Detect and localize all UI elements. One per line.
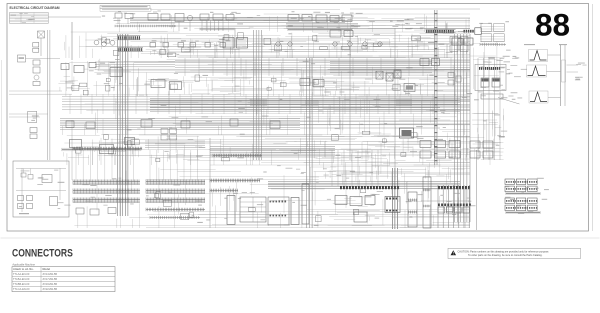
bus B drop ticks: [69, 94, 71, 114]
bus B reinforcing lines: [150, 100, 458, 102]
small parts below ladders: [76, 208, 84, 214]
pump unit boxes: [335, 196, 347, 205]
svg-text:Applicable Machine: Applicable Machine: [12, 263, 35, 267]
left double feeder: [47, 30, 49, 160]
bus E ticks: [213, 155, 262, 157]
fuse row center: [276, 42, 280, 46]
bottom bus F dark pins left: [340, 186, 342, 189]
vertical harness bundle B1: [117, 34, 119, 216]
harness mid bundle D: [145, 140, 205, 142]
valve block ladder: [385, 197, 400, 213]
left relay K1: [38, 31, 45, 38]
scattered small components mid: [83, 90, 88, 95]
drawing frame border: [7, 4, 589, 232]
right cluster 2: [470, 141, 480, 148]
svg-text:CONNECTORS: CONNECTORS: [12, 247, 73, 259]
right distribution area: [477, 58, 479, 160]
inset upper-left group: [21, 173, 26, 177]
svg-text:ELECTRICAL CIRCUIT DIAGRAM: ELECTRICAL CIRCUIT DIAGRAM: [10, 6, 60, 10]
svg-text:TTLAA-EN-00: TTLAA-EN-00: [13, 272, 30, 276]
mid-right mesh: [367, 152, 369, 160]
tall strip 2: [423, 177, 431, 228]
relay block R-TOP: [200, 14, 209, 20]
svg-text:To order parts on the drawing,: To order parts on the drawing, be sure t…: [468, 254, 543, 257]
bottom bus F dark pins right: [438, 186, 440, 189]
circled component row: [94, 40, 99, 45]
svg-text:TTLCA-EN-00: TTLCA-EN-00: [13, 287, 30, 291]
top-right connector grid: [481, 24, 492, 32]
small parts left of ECU: [448, 73, 454, 78]
svg-text:CAUTION: Parts numbers on this: CAUTION: Parts numbers on this drawing a…: [458, 251, 550, 254]
right ECU box: [475, 64, 506, 90]
right bottom ladder grid: [437, 185, 439, 228]
left inset assembly box: [13, 161, 69, 217]
bus B dense core: [150, 97, 460, 99]
connector block CN-M1: [210, 180, 260, 182]
vertical harness bundle B2: [253, 30, 255, 160]
wiring web zone top: [217, 27, 470, 29]
svg-text:ZX14HW-5B: ZX14HW-5B: [43, 272, 58, 276]
wiring web zone upper-mid: [335, 86, 470, 88]
vertical harness bundle B4: [454, 34, 456, 222]
dark cluster right of bus A: [452, 38, 462, 45]
wiring web zone upper: [129, 50, 395, 52]
connector row CL0: [62, 149, 140, 151]
connector ladder rows bottom-left: [73, 181, 140, 183]
vertical wire W-72b: [71, 120, 73, 180]
dark vertical trunk x436: [434, 10, 436, 165]
top harness bus: [130, 17, 345, 19]
small cluster 165: [161, 129, 168, 134]
dark connector strip top-right: [426, 30, 427, 33]
svg-text:ZX22HW-5B: ZX22HW-5B: [43, 287, 58, 291]
right cluster labels: [474, 99, 479, 100]
component row mid-low: [70, 140, 82, 148]
horn terminal strip: [562, 60, 566, 82]
vertical wire W-395: [394, 28, 396, 180]
fuse box FB1: [115, 13, 122, 18]
svg-text:Attach to cd. No.: Attach to cd. No.: [13, 267, 34, 271]
bus A dense core: [330, 61, 432, 63]
lower-mid mesh left: [93, 147, 95, 152]
bus C component boxes: [66, 121, 74, 128]
wiring web zone bottom: [442, 167, 470, 169]
inset wiring: [16, 168, 66, 170]
vertical wire W-350: [349, 30, 351, 160]
horizontal bus C: [60, 118, 300, 120]
vertical bundle V-393: [392, 168, 394, 229]
wire run from title block: [71, 22, 73, 60]
tall connector strip: [408, 192, 417, 227]
svg-text:TTLBA-EN-00: TTLBA-EN-00: [13, 277, 30, 281]
svg-text:Model: Model: [43, 267, 51, 271]
bus E: [210, 146, 335, 148]
main horizontal bus A: [175, 60, 470, 62]
inset small parts: [18, 196, 24, 201]
dark connector comb on B1 lower: [118, 47, 143, 49]
relay group with cross marks: [376, 71, 383, 79]
ladder connecting verticals: [75, 150, 77, 182]
general label smudges: [333, 81, 337, 84]
wiring web right column: [472, 119, 497, 121]
tall module TM5: [302, 184, 309, 224]
device M1: [110, 68, 122, 77]
dark connector strip 2: [464, 30, 465, 33]
relay RB (dark cap): [492, 78, 500, 87]
machine model table: [12, 267, 115, 292]
svg-text:ZX17HW-5B: ZX17HW-5B: [43, 277, 58, 281]
wiring web zone lower-mid: [125, 155, 418, 157]
control unit block CU1: [330, 30, 341, 37]
wiring web zone mid: [337, 97, 470, 99]
vertical wire W-235: [234, 28, 236, 92]
box pair mid: [420, 59, 429, 66]
left device boxes row: [61, 64, 69, 70]
vertical harness bundle B3: [306, 58, 308, 228]
tall module TM3 (big unit): [268, 197, 289, 225]
junction box J1: [475, 28, 482, 35]
relay RA (dark cap): [481, 78, 489, 87]
upper component row (diodes): [150, 43, 156, 48]
tall module TM1: [227, 196, 235, 225]
bus A drop ticks: [184, 58, 186, 76]
svg-text:ZX19HW-5B: ZX19HW-5B: [43, 282, 58, 286]
tall module TM4: [291, 198, 299, 225]
left switch box SW-L: [18, 55, 26, 62]
transformer T1: [175, 14, 184, 22]
left lower parts: [30, 128, 37, 133]
switch panel boxes SW-A: [412, 36, 421, 41]
connector ladder row L-extra: [146, 209, 205, 211]
scattered small components lower: [156, 158, 160, 162]
vertical wire W-210: [209, 138, 211, 228]
vertical wire W-476: [476, 150, 478, 230]
connector cluster right-upper: [450, 37, 458, 44]
dark connector comb on B1 upper: [118, 35, 141, 37]
horn harness vertical: [560, 45, 562, 106]
inset component K2: [42, 175, 52, 183]
dark module DM1: [404, 84, 415, 92]
left component chain: [33, 43, 39, 48]
left horizontal wires: [9, 90, 62, 92]
right margin cluster B: [505, 198, 515, 204]
right margin cluster A: [505, 179, 515, 185]
main horizontal bus B (dark band): [62, 96, 470, 98]
mid component boxes: [151, 80, 165, 88]
caution note box: [448, 248, 581, 258]
svg-text:88: 88: [535, 6, 570, 42]
mid-bottom vertical drops: [331, 150, 333, 186]
tall module TM2: [240, 197, 266, 222]
connector ladder row L1 upper: [73, 148, 142, 150]
scattered small components bottom: [181, 213, 189, 219]
relay pair RL2: [223, 38, 234, 49]
bus B dark clumps: [250, 99, 267, 106]
horn symbol assembly (right): [529, 50, 548, 62]
horn labels: [583, 64, 587, 67]
svg-text:TTLBB-EN-00: TTLBB-EN-00: [13, 282, 30, 286]
main relay cluster top-center: [288, 15, 299, 22]
applicable machine table (title block): [10, 13, 49, 24]
label block left of strip: [405, 27, 411, 30]
sensor cluster: [300, 79, 310, 86]
dark module DM2: [400, 128, 414, 138]
top note box: [100, 6, 150, 9]
horn link wires: [548, 54, 561, 56]
battery symbol: [481, 94, 503, 99]
cluster mid-right dense: [420, 141, 431, 148]
bottom bus F: [268, 181, 460, 183]
inset bottom marks: [19, 213, 29, 214]
scattered small components upper: [264, 38, 271, 44]
left resistor box: [28, 111, 37, 122]
